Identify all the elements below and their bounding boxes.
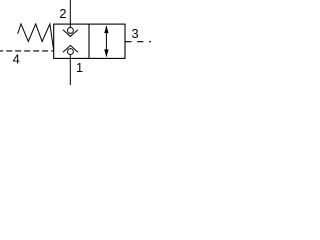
svg-text:2: 2: [59, 6, 66, 21]
port 1 line (bottom): [69, 58, 71, 85]
flow arrow head up: [104, 26, 108, 34]
flow arrow shaft (free-flow position): [105, 26, 107, 57]
valve envelope (two-position body): [54, 24, 125, 58]
check valve CV1 ball: [67, 27, 73, 33]
svg-text:1: 1: [76, 60, 83, 75]
wire CV2 ball to bottom edge: [69, 55, 71, 59]
check valve CV2 ball: [67, 49, 73, 55]
svg-text:4: 4: [13, 52, 20, 67]
position divider line: [88, 24, 90, 58]
port 4 pilot dashed line: [0, 50, 54, 52]
check valve CV2 seat (lower inverted V): [63, 45, 78, 52]
check valve CV1 seat (upper V): [63, 30, 78, 37]
flow arrow head down: [104, 49, 108, 57]
svg-text:3: 3: [132, 26, 139, 41]
port 3 pilot dashed line: [125, 41, 151, 43]
spring: [18, 24, 54, 50]
port 2 line (top): [69, 0, 71, 28]
